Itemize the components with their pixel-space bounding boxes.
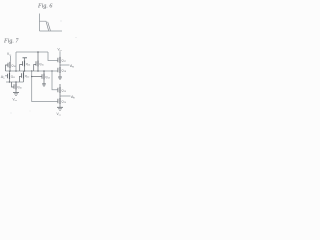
wire: rail left drop to node N1 xyxy=(15,52,17,71)
output tap 2 xyxy=(60,95,71,97)
capacitor T-bar above Q2 xyxy=(23,57,28,59)
transistor QL1 (lower right top) xyxy=(58,84,60,96)
svg-text:Fig. 7: Fig. 7 xyxy=(3,39,19,45)
ground (small) below QU2 xyxy=(58,77,62,79)
wire: Vcc lead down to QU1 drain xyxy=(59,51,61,57)
svg-text:Aa: Aa xyxy=(70,64,74,69)
transistor Q3 xyxy=(34,52,38,71)
transistor QL2 (lower right bottom) xyxy=(58,96,60,107)
long wire from N1 down to QL2 gate xyxy=(32,71,58,102)
wire: rail right corner down and gate lead of QU1 xyxy=(48,52,57,61)
transistor Q5 xyxy=(20,71,24,82)
ground (small) below Q7 xyxy=(42,84,46,86)
ground below QL2 xyxy=(57,107,63,110)
wire y82 (source rail of lower-left block) xyxy=(6,81,24,83)
svg-text:Fig. 6: Fig. 6 xyxy=(37,3,52,9)
transistor Q1 xyxy=(6,62,11,71)
wire: input lead to Q4 gate xyxy=(5,75,8,77)
node dots on y82 xyxy=(9,81,11,83)
junction dot at Q7 gate tap xyxy=(31,76,33,78)
svg-text:Ab: Ab xyxy=(71,95,75,100)
node N1 wire y71 (also gate lead of QU2) xyxy=(6,70,58,72)
transistor Q4 xyxy=(8,71,10,82)
transistor Q6 (bottom left) xyxy=(12,82,17,92)
ground below Q6 xyxy=(13,92,19,95)
svg-text:A1: A1 xyxy=(1,75,5,80)
node dots on N1 xyxy=(9,70,11,72)
transistor QU2 (upper right bottom) xyxy=(58,65,60,77)
transistor Q7 (middle, gate from long vertical) xyxy=(32,71,44,84)
wire: top rail y52 xyxy=(16,51,48,53)
Fig. 6 waveform high level and falling edge 1 xyxy=(40,21,49,30)
wire: Vcc lead down to Q1 drain xyxy=(10,56,12,62)
node dot on rail at Q3 drain xyxy=(37,51,39,53)
wire from N1 down to QL1 gate xyxy=(52,71,57,90)
output tap 1 xyxy=(60,64,70,66)
Fig. 6 falling edge 2 (delayed transition) xyxy=(48,22,51,31)
Fig. 6 waveform vertical axis xyxy=(39,14,41,32)
Fig. 6 waveform baseline (time axis) xyxy=(40,30,63,32)
transistor QU1 (upper right top) xyxy=(58,57,60,65)
transistor Q2 xyxy=(20,58,25,71)
faint scan specks xyxy=(61,21,62,22)
